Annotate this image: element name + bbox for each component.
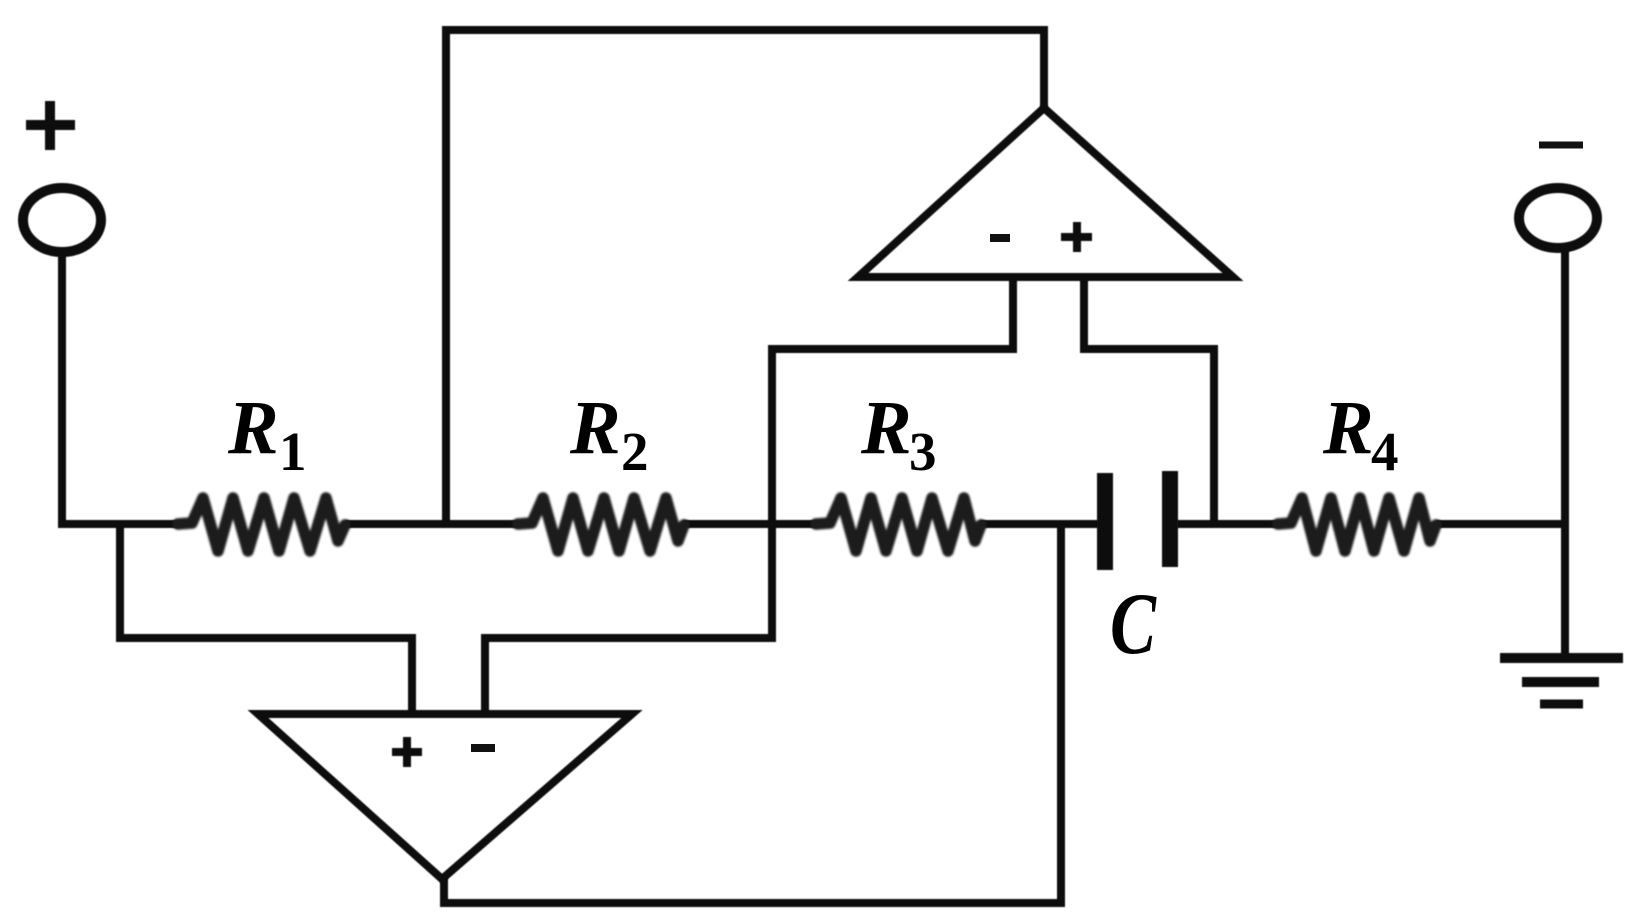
svg-text:1: 1 [279,421,307,482]
svg-text:R: R [860,386,912,470]
resistor R1 [178,498,345,551]
wire: main rail R1 to R2 [345,520,518,528]
wire: U1 + input leg down, right, down to main rail [1084,279,1214,524]
op-amp U1 (top, pointing up) [858,108,1233,277]
wire: node at x=120 down, to U2 + input leg [120,520,412,712]
svg-text:2: 2 [621,421,649,482]
op-amp U1 minus label [990,234,1010,242]
wire: top feedback - vertical at x=448, top run, down to U1 apex [446,30,1044,524]
wire: U2 output from apex down, right, up to main rail [444,524,1061,903]
terminal - symbol [1539,142,1583,149]
wire: main rail R2 to R3 [683,520,816,528]
ground [1500,658,1623,704]
capacitor C plates [1097,471,1178,570]
terminal + circle [23,188,101,252]
op-amp U2 (bottom, pointing down) [258,714,632,879]
resistor R3 [816,498,981,551]
svg-text:3: 3 [909,421,937,482]
svg-text:R: R [1322,386,1374,470]
svg-text:4: 4 [1371,421,1399,482]
svg-text:R: R [227,386,279,470]
wire: main rail R4 to right vertical [1436,520,1565,528]
resistor R4 [1278,498,1436,551]
terminal - circle [1519,188,1597,248]
svg-text:C: C [1110,576,1157,673]
op-amp U2 minus label [471,744,495,752]
op-amp U1 plus label [1061,222,1092,252]
wire: capacitor right plate to R4 [1177,520,1278,528]
wire: + terminal down to main rail then to R1 [62,252,178,524]
svg-text:R: R [569,386,621,470]
wire: main rail R3 to capacitor left plate [980,520,1098,528]
wire: U2 - input leg up to x=772 vertical, over to U1 - input leg [485,279,1013,712]
op-amp U2 plus label [392,737,422,767]
resistor R2 [518,498,684,551]
terminal + symbol [26,101,75,150]
wire: - terminal down through rail to ground [1561,250,1569,655]
